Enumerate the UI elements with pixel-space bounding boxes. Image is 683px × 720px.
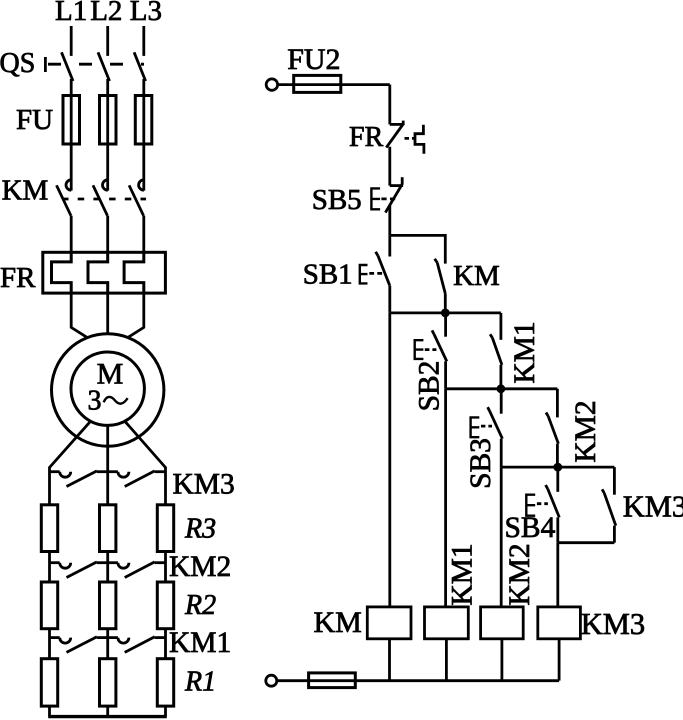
junction dot C [553,463,562,472]
resistor R3 pole3 [157,505,173,552]
coil KM1 [425,607,469,639]
svg-text:L2: L2 [90,0,122,27]
pushbutton SB4 dashed link [537,502,548,505]
resistor R2 pole2 [100,582,116,629]
svg-text:SB2: SB2 [414,361,446,412]
terminal bottom [266,675,277,686]
thermal relay FR box [43,252,166,293]
pushbutton SB5 actuator [371,188,380,209]
svg-text:KM1: KM1 [509,321,541,383]
fuse FU pole2 [100,96,117,145]
contactor KM3 shorting contact A [50,471,108,487]
junction dot B [497,384,506,393]
resistor R1 pole3 [157,659,173,706]
junction dot A [441,309,450,318]
switch QS blade pole1 [62,52,74,81]
contactor KM1 shorting contact B [108,637,166,653]
pushbutton SB1 actuator [360,265,368,283]
wire QS to FU pole2 [106,79,109,96]
svg-text:FU2: FU2 [287,43,340,76]
svg-text:SB5: SB5 [312,184,362,216]
wire KM1 aux down [499,365,502,389]
wire main rail down to KM coil [388,313,391,607]
switch QS actuator tick [44,57,47,72]
svg-text:KM3: KM3 [173,469,235,501]
pushbutton SB1 dashed link [369,272,382,275]
wire KM1 coil to bottom rail [445,639,448,681]
contactor KM3 aux upper wire [613,467,616,495]
pushbutton SB2 upper wire [444,313,447,337]
pushbutton SB4 NO contact [546,485,560,517]
contactor KM1 aux contact [490,334,502,365]
wire motor to rotor right [125,421,166,505]
pushbutton SB5 NC contact [385,177,403,212]
bottom rail wire [277,679,559,682]
contactor KM3 shorting contact B [108,471,166,487]
svg-text:FR: FR [0,262,36,294]
wire R2 to R1 pole1 [48,629,51,659]
switch QS blade pole2 [98,52,110,81]
wire KM3 rejoin rung [558,541,615,544]
pushbutton SB4 actuator [526,495,535,516]
wire L2 drop [106,26,109,56]
wire rung B [446,387,558,390]
svg-text:FR: FR [349,122,384,153]
pushbutton SB2 actuator [415,340,424,359]
svg-text:KM: KM [453,260,500,292]
fuse FU pole1 [63,96,80,145]
pushbutton SB3 actuator [471,417,480,437]
thermal relay FR trip element [415,125,424,154]
svg-text:KM1: KM1 [447,543,479,605]
contactor KM3 aux contact [602,489,616,525]
wire KM3 coil to bottom rail [558,639,561,681]
motor M inner circle [71,352,144,425]
fuse bottom [309,673,356,688]
coil KM [367,607,411,639]
pushbutton SB1 NO contact [376,252,390,286]
motor M outer circle [51,334,163,446]
wire QS to FU pole1 [70,79,73,96]
svg-text:KM2: KM2 [504,543,536,605]
contactor KM2 aux contact [546,413,558,444]
thermal relay FR heater pole1 [52,252,72,293]
svg-text:QS: QS [0,48,35,79]
wire SB4 rail down to KM3 coil [556,543,559,607]
contactor KM pole3 contact [129,144,144,252]
contactor KM2 aux upper wire [556,389,559,418]
wire R2 to R1 pole3 [164,629,167,659]
motor tilde [104,397,128,404]
wire KM2 coil to bottom rail [500,639,503,681]
coil KM3 [538,607,581,639]
wire R3 to R2 pole2 [106,552,109,583]
pushbutton SB4 upper wire [556,467,559,492]
pushbutton SB2 dashed link [425,348,437,351]
wire L3 drop [142,26,145,56]
wire KM aux to junction [444,294,447,313]
svg-text:SB1: SB1 [303,259,353,291]
svg-text:KM: KM [2,175,49,207]
wire FU2 corner down to FR [388,85,391,125]
svg-text:R3: R3 [184,514,216,545]
wire SB4 down [556,517,559,542]
fuse FU2 [278,75,390,92]
wire KM coil to bottom rail [388,639,391,681]
wire branch to KM aux [390,235,446,263]
wire motor to rotor left [50,421,91,505]
wire SB1 to junction [388,286,391,313]
resistor R3 pole1 [41,505,57,552]
pushbutton SB2 NO contact [432,330,447,361]
wire SB2 rail down to KM1 coil [444,389,447,607]
switch QS coupling dashed line [48,63,144,66]
contactor KM1 aux upper wire [499,313,502,340]
svg-text:3: 3 [88,385,102,416]
pushbutton SB3 upper wire [500,389,503,414]
wire rung C [501,466,614,469]
resistor R1 pole2 [100,659,116,706]
contactor KM2 shorting contact B [108,562,166,578]
wire KM3 aux down [613,526,616,543]
svg-text:KM3: KM3 [581,607,645,641]
svg-text:R1: R1 [184,667,216,698]
contactor KM aux contact [435,259,446,294]
pushbutton SB3 NO contact [488,407,503,439]
fuse FU pole3 [135,96,152,145]
resistor R2 pole1 [41,582,57,629]
wire SB3 rail down to KM2 coil [500,467,503,607]
wire FR to motor pole1 [71,293,87,338]
svg-text:FU: FU [16,104,53,136]
wire R3 to R2 pole1 [48,552,51,583]
star point bottom rail [48,715,167,718]
svg-text:KM3: KM3 [623,490,683,524]
resistor R3 pole2 [100,505,116,552]
contactor KM1 shorting contact A [50,637,108,653]
svg-text:R2: R2 [184,590,216,621]
wire R2 to R1 pole2 [106,629,109,659]
wire rung A [390,311,501,314]
coil KM2 [481,607,524,639]
resistor R2 pole3 [157,582,173,629]
contactor KM2 shorting contact A [50,562,108,578]
wire R1 bottoms to star point rail [50,706,166,716]
wire L1 drop [70,26,73,56]
resistor R1 pole1 [41,659,57,706]
switch QS blade pole3 [134,52,146,81]
contactor KM coupling dashed line [62,198,146,201]
thermal relay FR dashed link [405,137,415,140]
svg-text:L1: L1 [55,0,87,27]
wire motor to rotor middle [106,425,109,504]
contactor KM pole2 contact [93,144,108,252]
wire FR to motor pole3 [128,293,144,338]
pushbutton SB5 dashed link [381,197,395,200]
wire FR to motor pole2 [106,293,109,334]
pushbutton SB3 dashed link [481,425,492,428]
wire branch to SB1 [388,235,391,256]
wire FR to SB5 [388,147,391,186]
wire SB2 down [444,361,447,388]
thermal relay FR heater pole2 [88,252,108,293]
thermal relay FR heater pole3 [124,252,144,293]
svg-text:KM1: KM1 [169,627,231,659]
wire KM2 aux down [556,444,559,467]
svg-text:SB3: SB3 [465,438,497,489]
wire QS to FU pole3 [142,79,145,96]
wire SB5 to branch [388,206,391,236]
contactor KM pole1 contact [57,144,72,252]
wire SB3 down [500,439,503,467]
svg-text:L3: L3 [130,0,162,27]
svg-text:SB4: SB4 [505,512,556,544]
wire R3 to R2 pole3 [164,552,167,583]
thermal relay FR NC contact [386,121,403,148]
svg-text:KM: KM [314,606,362,639]
terminal top [266,79,277,90]
svg-text:KM2: KM2 [570,400,602,462]
svg-text:KM2: KM2 [169,551,231,583]
